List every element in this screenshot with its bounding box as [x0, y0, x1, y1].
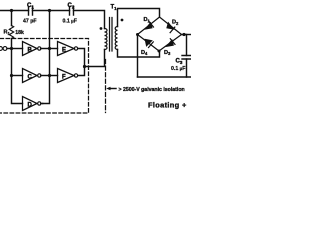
wire to gate F — [50, 75, 58, 77]
inverter C — [23, 69, 41, 83]
output bus wire of first stage (second vertical) — [43, 11, 50, 104]
svg-text:B: B — [28, 48, 33, 54]
inverter F — [58, 69, 78, 83]
svg-text:0.1 μF: 0.1 μF — [63, 19, 77, 25]
junction dot gate C input — [10, 74, 13, 77]
inverter D — [23, 97, 41, 111]
wire secondary bottom to bridge bottom vertex — [118, 50, 160, 58]
svg-text:> 2500-V galvanic isolation: > 2500-V galvanic isolation — [119, 87, 185, 93]
wire E output to driver bus — [78, 49, 85, 67]
inverter B — [23, 42, 41, 56]
capacitor C3 — [171, 56, 191, 78]
wire secondary top to bridge top vertex — [118, 9, 160, 27]
wire to gate B — [12, 48, 23, 50]
svg-text:D2: D2 — [172, 20, 179, 26]
junction dot plus node — [182, 33, 185, 36]
diode D3 — [164, 39, 175, 56]
capacitor C1 — [23, 3, 37, 25]
svg-text:D: D — [28, 103, 33, 109]
junction dot gate B input — [10, 47, 13, 50]
wire to gate C — [12, 75, 23, 77]
junction dot driver bus node — [83, 65, 86, 68]
wire driver bus to primary bottom — [85, 50, 105, 67]
wire D output — [41, 103, 43, 105]
galvanic isolation dashed line — [105, 60, 107, 113]
diode D1 — [144, 17, 154, 29]
diode bridge diamond — [138, 17, 182, 51]
wire to gate E — [50, 48, 58, 50]
svg-text:C1: C1 — [27, 3, 34, 10]
capacitor C2 — [63, 3, 77, 25]
svg-text:18k: 18k — [15, 30, 24, 36]
wire F output to driver bus — [78, 67, 85, 76]
input terminal circles at left edge — [0, 47, 2, 51]
resistor R1 18k — [4, 26, 24, 39]
svg-text:C3: C3 — [176, 59, 183, 66]
isolation arrow — [106, 87, 116, 90]
junction dot bridge left vertex — [136, 33, 139, 36]
svg-text:D1: D1 — [144, 17, 151, 23]
wire input stub — [7, 48, 12, 50]
IC dashed box — [0, 39, 89, 114]
junction dot B output node — [48, 47, 51, 50]
input bus wire (left vertical) — [12, 11, 23, 104]
phase dot primary — [100, 27, 103, 30]
svg-text:R1: R1 — [4, 30, 11, 36]
svg-text:C: C — [28, 75, 33, 81]
svg-text:Floating +: Floating + — [148, 101, 187, 110]
transformer core — [110, 18, 113, 52]
svg-text:C2: C2 — [68, 3, 75, 10]
transformer T1 primary winding — [105, 29, 108, 50]
svg-text:0.1 μF: 0.1 μF — [171, 66, 185, 72]
junction dot top-left node — [10, 9, 13, 12]
svg-text:E: E — [62, 48, 66, 54]
svg-text:F: F — [62, 75, 66, 81]
junction dot bridge bottom vertex — [158, 50, 161, 53]
svg-text:T1: T1 — [111, 5, 118, 12]
diode D4 — [141, 39, 153, 56]
svg-text:47 pF: 47 pF — [23, 19, 37, 25]
diode D2 — [167, 20, 179, 33]
wire top rail to transformer primary top — [74, 11, 105, 29]
wire C output — [41, 75, 50, 77]
wire top rail mid segment — [33, 10, 70, 12]
svg-text:D3: D3 — [164, 50, 171, 56]
svg-text:D4: D4 — [141, 50, 148, 56]
wire bridge plus output — [182, 34, 192, 36]
junction dot top-middle node — [48, 9, 51, 12]
wire plus down to C3 — [186, 35, 188, 56]
wire top rail left segment — [0, 10, 29, 12]
wire B output — [41, 48, 50, 50]
inverter E — [58, 42, 78, 56]
junction dot C output node — [48, 74, 51, 77]
phase dot secondary — [121, 19, 124, 22]
transformer T1 secondary winding — [115, 27, 117, 50]
wire bridge minus down (crossover) — [137, 35, 139, 78]
wire bottom rail — [138, 76, 192, 78]
